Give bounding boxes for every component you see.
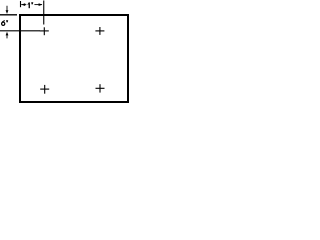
- hole center mark H2 (top-right): [95, 27, 104, 35]
- hole center mark H4 (bottom-right): [96, 84, 105, 92]
- hole center mark H1 (top-left): [40, 27, 49, 35]
- dimension line left arrow of 1 inch dimension: [21, 3, 26, 6]
- extension line (hole row, horizontal) for 6 inch dimension: [0, 30, 40, 32]
- dimension line lower arrow of 6 inch dimension (points up): [6, 32, 9, 39]
- plate outline rectangle: [20, 15, 128, 102]
- dimension line upper arrow of 6 inch dimension (points down): [6, 6, 9, 14]
- dimension text 6 inch: [2, 20, 9, 25]
- dimension line right arrow of 1 inch dimension: [34, 3, 42, 6]
- dimension text 1 inch: [27, 2, 33, 8]
- extension line (hole column, vertical) for 1 inch dimension: [43, 1, 45, 25]
- extension line (left edge, vertical) for 1 inch dimension: [20, 1, 22, 7]
- extension line (top edge, horizontal) for 6 inch dimension: [0, 14, 17, 16]
- hole center mark H3 (bottom-left): [40, 85, 49, 94]
